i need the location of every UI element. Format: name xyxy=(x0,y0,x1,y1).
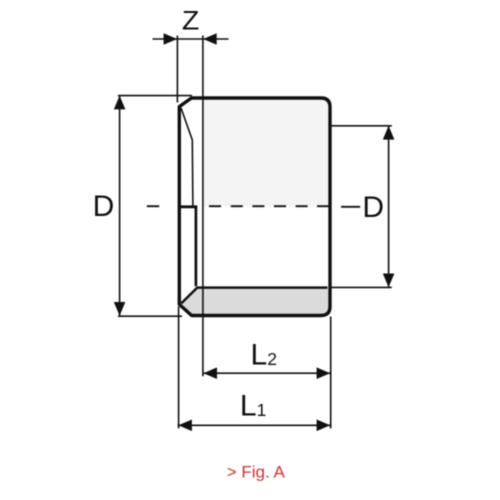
Z right arrowhead xyxy=(203,33,217,45)
dimension line xyxy=(203,372,330,374)
svg-text:D: D xyxy=(362,191,384,224)
Z dimension xyxy=(153,33,229,102)
bottom extension line xyxy=(118,315,182,317)
pipe end line xyxy=(195,207,198,286)
centerline dashes xyxy=(147,205,360,208)
right D dimension xyxy=(329,126,395,288)
bottom wall wedge fill xyxy=(181,288,328,315)
dimension line xyxy=(388,126,390,287)
up arrowhead xyxy=(383,126,395,140)
Z left arrowhead xyxy=(164,33,178,45)
socket bottom line / Z-L2 extension line xyxy=(202,36,204,377)
top extension line xyxy=(329,125,392,127)
up arrowhead xyxy=(114,96,126,110)
Z left extension line xyxy=(176,36,178,103)
right extension line xyxy=(330,317,332,429)
left arrowhead xyxy=(178,420,192,432)
down arrowhead xyxy=(383,274,395,288)
right arrowhead xyxy=(317,367,331,379)
left D dimension xyxy=(114,96,192,317)
L2 dimension xyxy=(203,317,330,429)
top extension line xyxy=(118,95,192,97)
svg-text:> Fig. A: > Fig. A xyxy=(227,463,286,482)
down arrowhead xyxy=(114,302,126,316)
Z dimension line xyxy=(153,38,229,40)
bottom extension line xyxy=(332,286,392,288)
body interior upper fill xyxy=(203,100,328,207)
socket taper line xyxy=(181,108,193,206)
bottom wall wedge top edge xyxy=(181,288,327,304)
body outline xyxy=(179,98,330,316)
svg-text:Z: Z xyxy=(182,6,200,36)
L1 dimension xyxy=(178,307,331,432)
left extension line xyxy=(178,307,180,429)
right arrowhead xyxy=(317,420,331,432)
left arrowhead xyxy=(203,367,217,379)
center step line xyxy=(180,205,198,208)
dimension line xyxy=(178,424,331,426)
svg-text:D: D xyxy=(93,190,115,223)
dimension line xyxy=(119,96,121,316)
